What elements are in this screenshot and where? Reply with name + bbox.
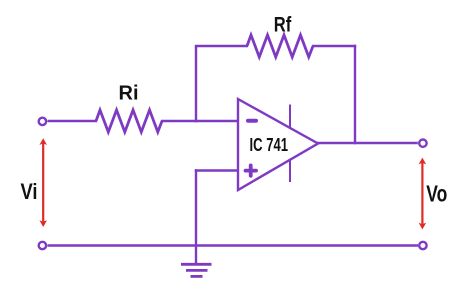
terminal: output top-right (419, 140, 426, 147)
Vi voltage arrow (double-headed, red) (39, 138, 47, 227)
svg-text:Vo: Vo (426, 180, 447, 206)
resistor Ri (96, 110, 162, 132)
op-amp U1 inverting input minus symbol (248, 119, 256, 123)
resistor Rf (247, 35, 313, 57)
svg-text:IC 741: IC 741 (250, 135, 289, 155)
svg-text:Ri: Ri (119, 83, 139, 105)
terminal: input top-left (39, 118, 46, 125)
svg-text:Vi: Vi (21, 179, 38, 204)
wire: non-inverting input vertical down to ground rail (195, 169, 197, 246)
wire: feedback right vertical down to output (354, 45, 356, 144)
op-amp U1 positive supply pin tick (289, 105, 291, 129)
wire: bottom rail (48, 244, 419, 246)
wire: feedback top right segment from Rf (312, 45, 356, 47)
wire: feedback vertical from node A up to Rf (195, 46, 197, 122)
wire: input lead left of Ri (48, 120, 98, 122)
svg-text:Rf: Rf (274, 14, 292, 37)
Vo voltage arrow (double-headed, red) (419, 158, 427, 230)
wire: input lead Ri to op-amp inverting input (161, 120, 238, 122)
op-amp U1 negative supply pin tick (289, 160, 291, 182)
wire: op-amp output to terminal Vo (317, 142, 418, 144)
wire: feedback top left segment to Rf (195, 45, 248, 47)
op-amp U1 triangle (238, 99, 318, 190)
terminal: output bottom-right (419, 242, 426, 249)
terminal: input bottom-left (39, 242, 46, 249)
ground (181, 246, 212, 277)
wire: non-inverting input horizontal (195, 169, 238, 171)
op-amp U1 non-inverting input plus symbol (246, 165, 257, 175)
